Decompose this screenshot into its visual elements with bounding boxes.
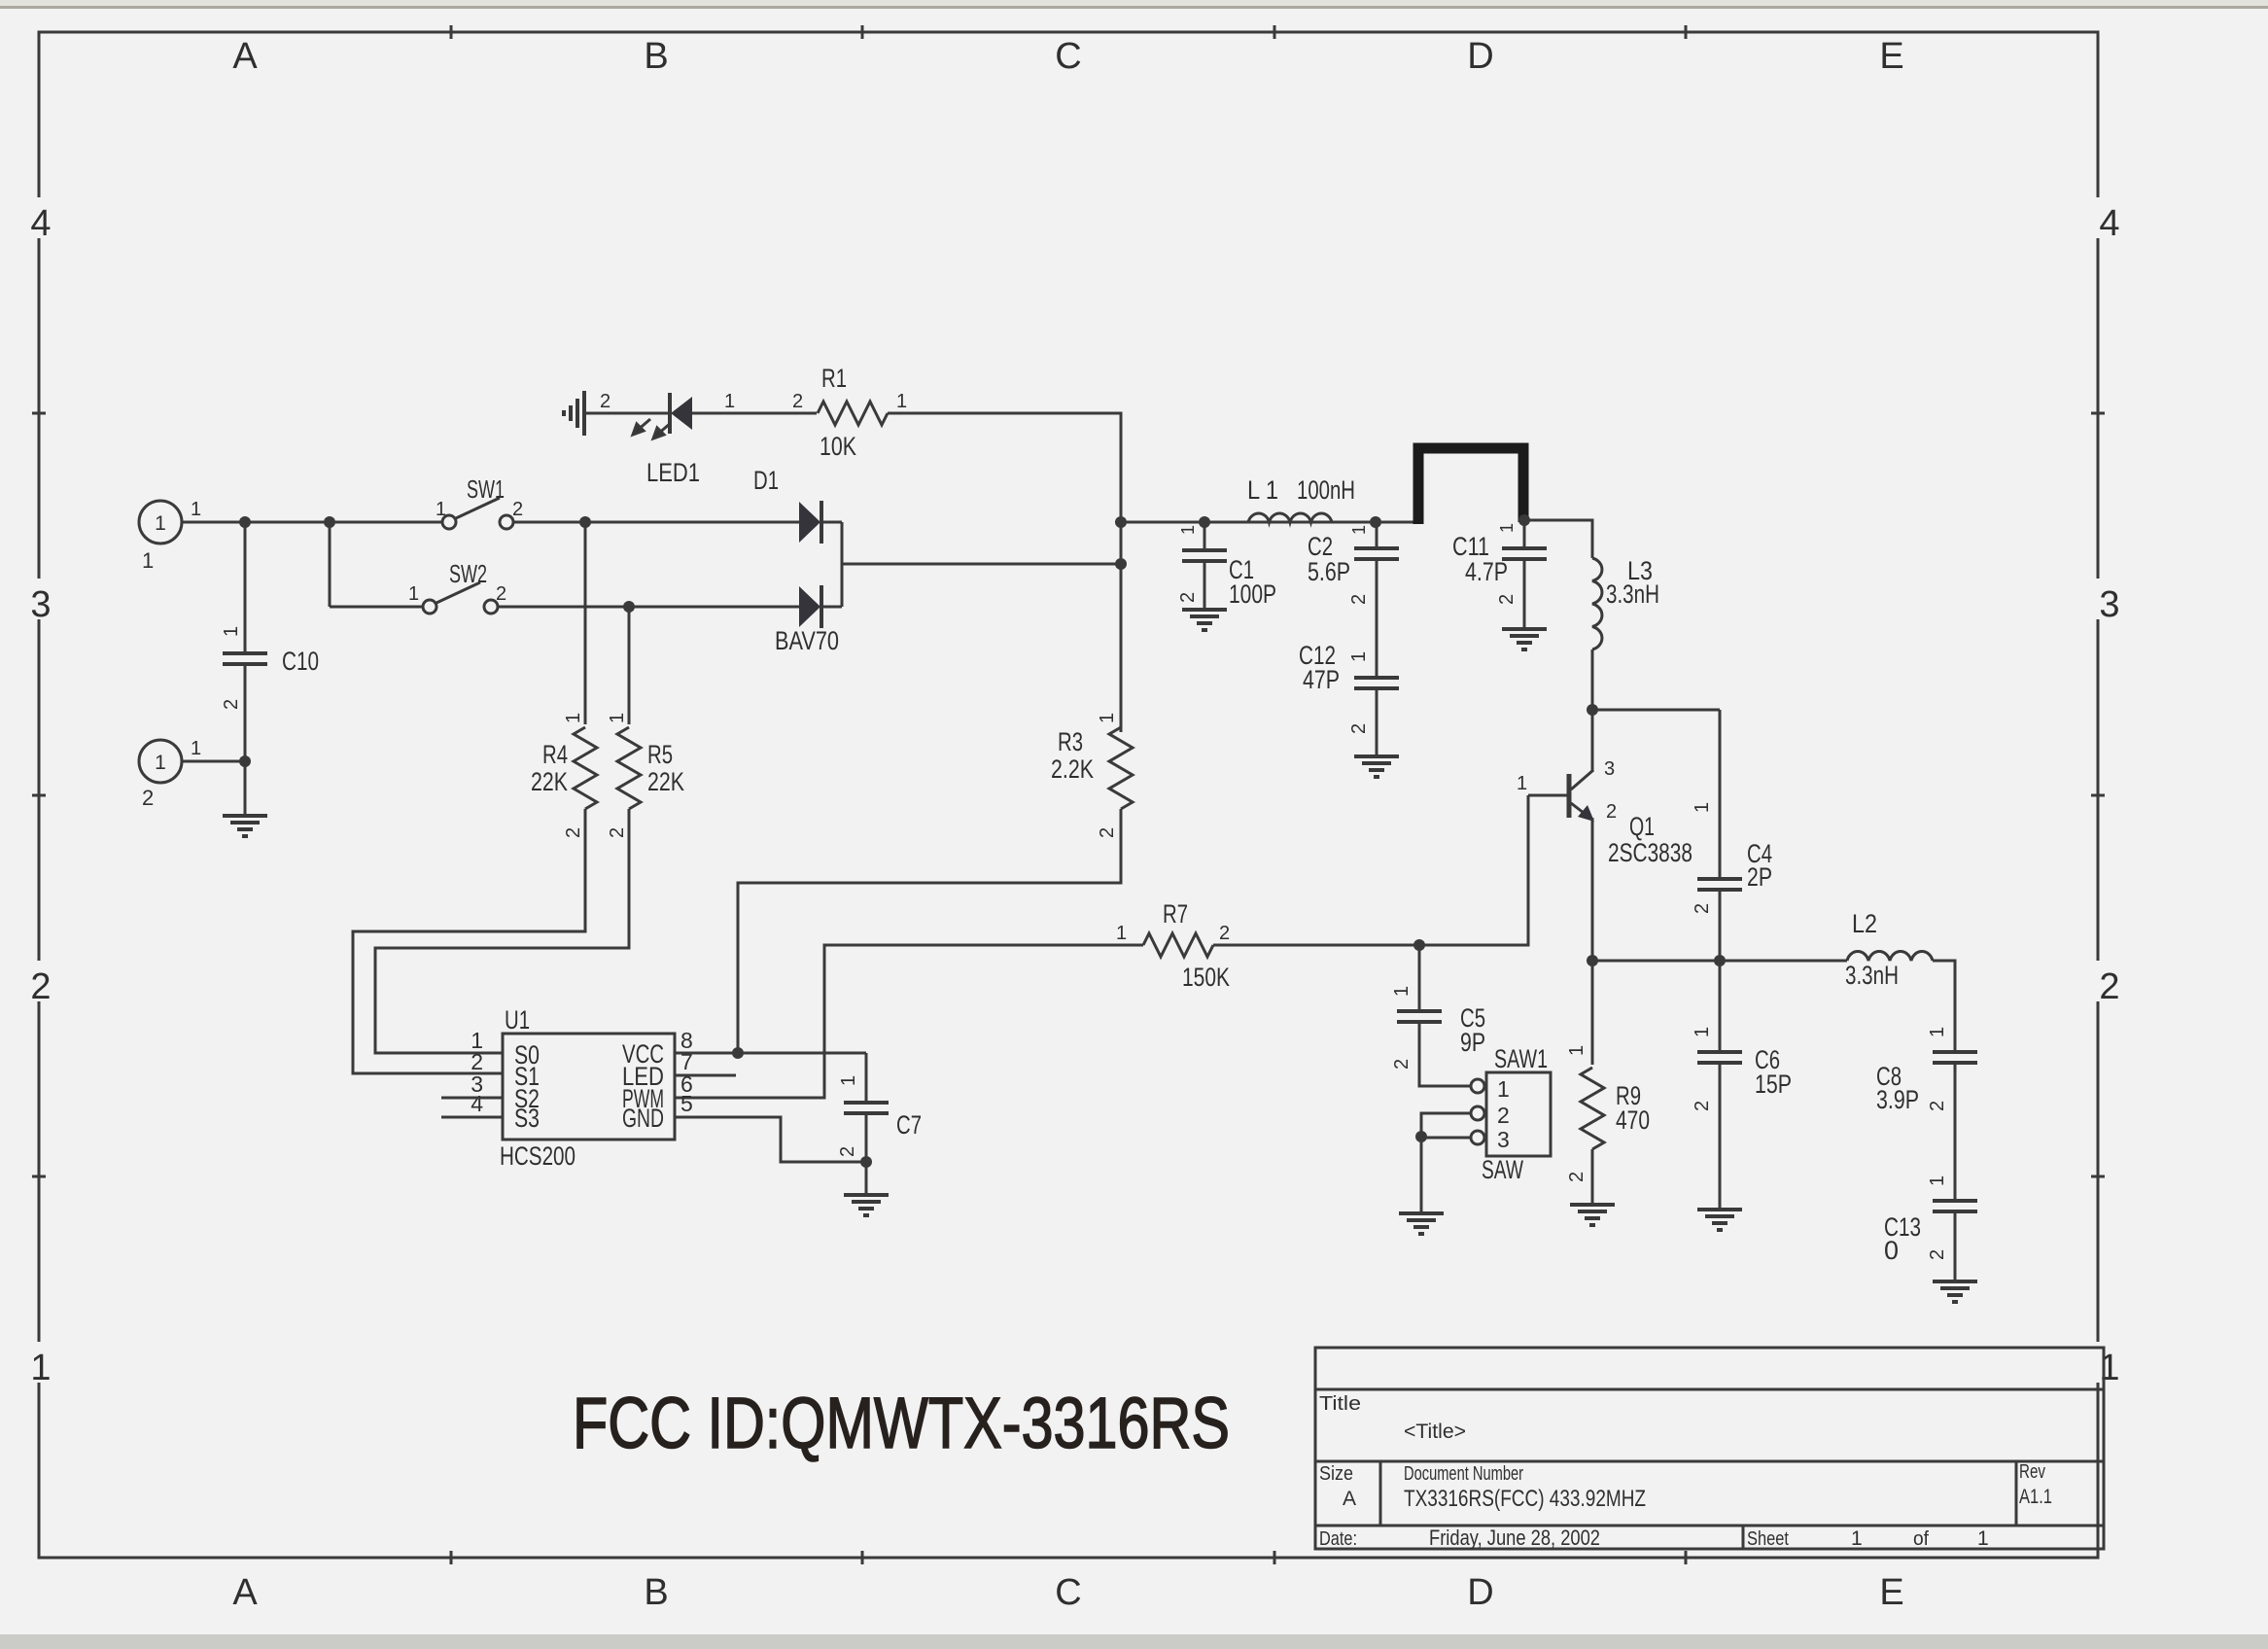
wire rail to L1 and C2: [1121, 521, 1417, 524]
svg-text:1: 1: [1116, 923, 1127, 944]
wire C11 pin2: [1523, 559, 1526, 629]
svg-text:2: 2: [1496, 594, 1518, 605]
svg-text:9P: 9P: [1460, 1028, 1485, 1057]
wire L2 to C8: [1933, 961, 1955, 1052]
svg-text:U1: U1: [505, 1005, 530, 1035]
wire C8 to C13: [1954, 1063, 1957, 1201]
wire node join: [1120, 522, 1123, 564]
svg-text:4: 4: [471, 1091, 483, 1116]
svg-text:2: 2: [221, 699, 242, 710]
svg-text:4: 4: [2099, 203, 2119, 244]
svg-text:2: 2: [1927, 1101, 1948, 1111]
svg-text:1: 1: [1178, 525, 1198, 535]
wire U1 GND to C7: [675, 1117, 866, 1162]
wire Q1 emitter: [1591, 818, 1594, 961]
ground below C1: [1182, 610, 1227, 630]
svg-text:R1: R1: [821, 364, 847, 393]
svg-text:2: 2: [1348, 594, 1370, 605]
junction C4/C6: [1714, 955, 1726, 966]
svg-text:1: 1: [1851, 1527, 1863, 1550]
ground below SAW1: [1399, 1213, 1444, 1234]
ground below C12: [1354, 756, 1399, 777]
wire conn1 to node: [182, 521, 245, 524]
junction C7 ground net: [860, 1156, 872, 1168]
svg-text:1: 1: [896, 391, 907, 412]
wire C12 pin2: [1376, 688, 1378, 756]
resistor R1: [818, 402, 888, 425]
wire D1 lower cathode: [821, 606, 842, 609]
svg-text:1: 1: [1497, 523, 1517, 533]
ground below C11: [1502, 629, 1547, 649]
svg-text:1: 1: [1348, 651, 1370, 662]
wire C2 pin1: [1376, 522, 1378, 548]
capacitor C6: [1697, 1052, 1742, 1063]
svg-text:B: B: [644, 1572, 668, 1613]
wire to C4: [1592, 709, 1720, 712]
svg-text:<Title>: <Title>: [1404, 1421, 1466, 1443]
svg-text:2: 2: [1177, 592, 1199, 603]
wire to SW1: [245, 521, 442, 524]
wire R5 pin1: [628, 607, 631, 724]
wire R1 to main node: [888, 413, 1121, 522]
capacitor C4: [1697, 879, 1742, 890]
wire C6 pin2: [1719, 1063, 1722, 1210]
SAW1 pin circles: [1471, 1079, 1484, 1093]
resistor R3: [1109, 727, 1133, 809]
svg-text:2: 2: [1927, 1249, 1948, 1260]
wire down to SW2 row: [329, 522, 331, 607]
svg-text:470: 470: [1616, 1105, 1650, 1135]
svg-text:C: C: [1055, 1572, 1081, 1613]
capacitor C7: [844, 1103, 889, 1113]
svg-text:2: 2: [1692, 1101, 1713, 1111]
svg-text:A: A: [1343, 1488, 1356, 1510]
resistor R4: [574, 727, 597, 809]
thick jumper staple: [1418, 448, 1523, 524]
svg-text:4.7P: 4.7P: [1465, 557, 1508, 586]
svg-text:1: 1: [436, 499, 446, 520]
svg-text:5.6P: 5.6P: [1308, 557, 1350, 586]
wire to Q1 base: [1419, 795, 1528, 945]
svg-text:D: D: [1467, 1572, 1493, 1613]
svg-text:A: A: [232, 36, 258, 77]
junction R4 tap: [579, 516, 591, 528]
wire D1 output rail: [842, 563, 1121, 566]
resistor R9: [1581, 1068, 1604, 1149]
wire R4 pin1: [584, 522, 587, 724]
ground at LED1 cathode: [564, 391, 584, 436]
svg-text:Rev: Rev: [2019, 1461, 2045, 1483]
svg-text:1: 1: [142, 548, 154, 573]
junction C10 bottom node: [239, 755, 251, 767]
svg-text:2: 2: [837, 1146, 858, 1157]
connector J2 pin circle: [139, 740, 182, 783]
svg-text:1: 1: [30, 1348, 51, 1388]
svg-text:3: 3: [2099, 584, 2119, 625]
wire C5 pin1: [1418, 945, 1421, 1011]
svg-text:1: 1: [1927, 1175, 1948, 1186]
wire collector: [1591, 710, 1594, 772]
wire C1 pin2: [1204, 561, 1206, 610]
svg-text:1: 1: [838, 1075, 859, 1086]
wire to L3: [1524, 520, 1592, 558]
title block: [1315, 1348, 2104, 1549]
junction C1: [1199, 516, 1210, 528]
svg-text:GND: GND: [622, 1104, 664, 1133]
svg-text:2SC3838: 2SC3838: [1608, 838, 1692, 867]
svg-text:1: 1: [408, 583, 419, 605]
inductor L3: [1592, 558, 1602, 649]
capacitor C12: [1354, 678, 1399, 688]
ground below C7: [844, 1195, 889, 1215]
SAW1 resonator box: [1486, 1072, 1551, 1156]
wire C1 pin1: [1204, 522, 1206, 550]
svg-text:0: 0: [1884, 1236, 1899, 1265]
capacitor C11: [1502, 548, 1547, 559]
wire conn2 to ground node: [182, 760, 245, 763]
svg-text:2: 2: [2099, 966, 2119, 1007]
wire U1 S3 stub: [441, 1116, 503, 1119]
ground below C13: [1933, 1281, 1977, 1302]
svg-text:3: 3: [30, 584, 51, 625]
svg-text:2: 2: [1219, 923, 1230, 944]
svg-text:1: 1: [1692, 1027, 1713, 1037]
svg-text:C7: C7: [896, 1110, 922, 1140]
capacitor C10: [223, 653, 267, 664]
junction SAW ground net: [1415, 1131, 1427, 1142]
svg-text:1: 1: [191, 499, 201, 520]
svg-text:2: 2: [1348, 723, 1370, 734]
svg-text:1: 1: [1566, 1045, 1588, 1056]
svg-text:2: 2: [792, 391, 803, 412]
wire C4 pin1: [1719, 710, 1722, 879]
svg-text:Sheet: Sheet: [1747, 1528, 1789, 1550]
svg-text:Document Number: Document Number: [1404, 1463, 1523, 1485]
svg-text:1: 1: [155, 752, 166, 774]
connector J1 pin circle: [139, 501, 182, 544]
svg-text:S3: S3: [514, 1104, 540, 1133]
svg-text:1: 1: [1349, 525, 1369, 535]
svg-text:5: 5: [680, 1091, 693, 1116]
junction C5 / base: [1413, 939, 1425, 951]
svg-text:2: 2: [142, 786, 154, 810]
junction main rail / R1: [1115, 516, 1127, 528]
svg-text:L 1: L 1: [1247, 475, 1278, 505]
svg-text:A1.1: A1.1: [2019, 1486, 2052, 1508]
svg-text:150K: 150K: [1182, 963, 1230, 992]
svg-text:2: 2: [30, 966, 51, 1007]
svg-text:1: 1: [1391, 986, 1413, 997]
svg-text:2.2K: 2.2K: [1051, 754, 1094, 784]
switch SW2: [423, 600, 436, 614]
LED LED1: [671, 397, 692, 430]
wire C6 pin1: [1719, 961, 1722, 1052]
svg-text:A: A: [232, 1572, 258, 1613]
wire emitter rail: [1592, 960, 1847, 963]
wire C10 pin1: [244, 522, 247, 653]
svg-text:1: 1: [1927, 1027, 1948, 1037]
wire R9 pin1: [1591, 961, 1594, 1065]
wire SW1 to D1 anode: [513, 521, 799, 524]
capacitor C13: [1933, 1201, 1977, 1211]
junction D1 output / R3: [1115, 558, 1127, 570]
svg-text:R3: R3: [1058, 727, 1083, 756]
wire U1 S2 stub: [441, 1097, 503, 1100]
capacitor C5: [1397, 1011, 1442, 1022]
svg-text:1: 1: [1097, 713, 1118, 723]
SW1 lever: [456, 498, 500, 518]
svg-text:1: 1: [724, 391, 735, 412]
svg-text:1: 1: [1497, 1076, 1510, 1102]
svg-text:2: 2: [563, 827, 584, 838]
junction emitter rail: [1587, 955, 1598, 966]
svg-text:Title: Title: [1319, 1393, 1361, 1415]
resistor R5: [617, 727, 641, 809]
wire SAW1 pin2 to ground net: [1421, 1113, 1470, 1138]
svg-text:SW1: SW1: [467, 474, 505, 504]
junction collector / C4: [1587, 704, 1598, 716]
svg-text:2: 2: [1497, 1103, 1510, 1128]
ground below C10: [223, 816, 267, 836]
capacitor C8: [1933, 1052, 1977, 1063]
wire SW2 to D1 anode: [498, 606, 799, 609]
svg-text:3: 3: [1604, 758, 1615, 780]
svg-text:BAV70: BAV70: [775, 626, 839, 655]
svg-text:22K: 22K: [531, 767, 568, 796]
wire C10 pin2: [244, 664, 247, 761]
wire C7 pin2: [865, 1113, 868, 1162]
inductor L2: [1847, 952, 1933, 961]
wire Q1 base stub: [1528, 794, 1569, 797]
capacitor C1: [1182, 550, 1227, 561]
svg-text:22K: 22K: [647, 767, 684, 796]
svg-text:2: 2: [1391, 1059, 1413, 1070]
svg-text:3: 3: [1497, 1127, 1510, 1152]
wire C4 pin2: [1719, 890, 1722, 961]
SW2 lever: [436, 582, 480, 603]
IC U1 HCS200 box: [503, 1034, 675, 1140]
svg-text:1: 1: [221, 626, 242, 637]
svg-text:1: 1: [563, 713, 584, 723]
svg-text:15P: 15P: [1755, 1070, 1792, 1099]
svg-text:SW2: SW2: [449, 559, 487, 588]
wire R9 pin2: [1591, 1149, 1594, 1205]
svg-text:3.9P: 3.9P: [1876, 1085, 1919, 1114]
svg-text:100nH: 100nH: [1297, 475, 1355, 505]
svg-text:TX3316RS(FCC) 433.92MHZ: TX3316RS(FCC) 433.92MHZ: [1404, 1486, 1646, 1512]
wire R7 to C5 node: [1213, 944, 1419, 947]
svg-text:R7: R7: [1163, 899, 1188, 929]
svg-text:Q1: Q1: [1629, 812, 1655, 841]
svg-text:SAW: SAW: [1482, 1155, 1523, 1184]
wire to ground: [1420, 1138, 1423, 1213]
svg-text:D: D: [1467, 36, 1493, 77]
svg-text:SAW1: SAW1: [1494, 1044, 1548, 1073]
wire C2 to C12: [1376, 559, 1378, 678]
svg-text:HCS200: HCS200: [500, 1141, 576, 1171]
wire U1 VCC: [675, 1052, 866, 1055]
wire to ground: [244, 761, 247, 816]
svg-text:1: 1: [155, 512, 166, 535]
svg-text:1: 1: [1977, 1527, 1989, 1550]
svg-text:1: 1: [607, 713, 628, 723]
junction C11 / L3: [1518, 514, 1530, 526]
wire C11 pin1: [1523, 520, 1526, 548]
svg-text:1: 1: [1692, 802, 1713, 813]
wire D1 upper cathode: [821, 521, 842, 524]
wire L3 to collector node: [1591, 649, 1594, 710]
svg-text:2: 2: [1606, 801, 1617, 823]
wire C5 to SAW1 pin1: [1419, 1022, 1470, 1086]
ground below C6: [1697, 1210, 1742, 1230]
wire R4 to U1 S1: [353, 809, 585, 1073]
switch SW1: [442, 515, 456, 529]
svg-text:L2: L2: [1852, 909, 1877, 938]
wire LED1 to R1: [692, 412, 817, 415]
wire R3 to VCC net: [738, 809, 1121, 1053]
svg-text:47P: 47P: [1303, 665, 1340, 694]
svg-text:Date:: Date:: [1319, 1528, 1357, 1550]
wire ground to LED1: [584, 412, 671, 415]
svg-text:E: E: [1879, 1572, 1903, 1613]
wire U1 LED stub: [675, 1074, 736, 1077]
svg-text:2P: 2P: [1747, 862, 1772, 892]
wire R3 pin1: [1120, 564, 1123, 732]
junction SW2 branch: [324, 516, 335, 528]
junction C2 / staple: [1370, 516, 1381, 528]
scanner top strip: [0, 0, 2268, 6]
wire U1 PWM to R7: [675, 945, 1143, 1098]
svg-text:C10: C10: [282, 647, 319, 676]
scanner bottom strip: [0, 1634, 2268, 1649]
svg-text:Friday, June 28, 2002: Friday, June 28, 2002: [1429, 1526, 1600, 1550]
junction VCC: [732, 1047, 744, 1059]
wire C7 pin1: [865, 1053, 868, 1103]
svg-text:2: 2: [512, 499, 523, 520]
svg-text:2: 2: [607, 827, 628, 838]
svg-text:10K: 10K: [820, 432, 856, 461]
svg-text:R4: R4: [542, 740, 568, 769]
svg-text:LED1: LED1: [646, 458, 700, 487]
svg-text:3.3nH: 3.3nH: [1845, 961, 1899, 990]
svg-text:1: 1: [1517, 773, 1527, 794]
frame ticks: [450, 25, 453, 39]
svg-text:R5: R5: [647, 740, 673, 769]
svg-text:D1: D1: [753, 466, 779, 495]
svg-text:4: 4: [30, 203, 51, 244]
resistor R7: [1143, 933, 1213, 957]
svg-text:of: of: [1913, 1528, 1929, 1550]
capacitor C2: [1354, 548, 1399, 559]
svg-text:2: 2: [1566, 1172, 1588, 1182]
wire R5 to U1 S0: [375, 809, 629, 1053]
svg-text:1: 1: [191, 738, 201, 759]
svg-text:2: 2: [600, 391, 611, 412]
svg-text:FCC ID:QMWTX-3316RS: FCC ID:QMWTX-3316RS: [573, 1383, 1230, 1463]
inductor L1: [1248, 513, 1332, 522]
svg-text:3.3nH: 3.3nH: [1606, 579, 1659, 609]
wire C13 pin2: [1954, 1211, 1957, 1281]
svg-text:100P: 100P: [1229, 579, 1276, 609]
ground below R9: [1570, 1205, 1615, 1225]
transistor Q1: [1567, 774, 1572, 818]
wire D1 cathode join bar: [841, 522, 844, 607]
frame zone numbers: [27, 197, 54, 238]
svg-text:B: B: [644, 36, 668, 77]
wire to ground: [865, 1162, 868, 1195]
junction R5 tap: [623, 601, 635, 613]
svg-text:2: 2: [496, 583, 506, 605]
svg-text:2: 2: [1097, 827, 1118, 838]
svg-text:Size: Size: [1319, 1463, 1353, 1485]
svg-text:E: E: [1879, 36, 1903, 77]
diode D1 upper: [799, 502, 820, 543]
wire to SW2: [330, 606, 423, 609]
svg-text:C: C: [1055, 36, 1081, 77]
diode D1 lower: [799, 586, 820, 627]
junction C10 top node: [239, 516, 251, 528]
wire SAW1 pin3: [1421, 1137, 1470, 1140]
svg-text:2: 2: [1692, 903, 1713, 914]
